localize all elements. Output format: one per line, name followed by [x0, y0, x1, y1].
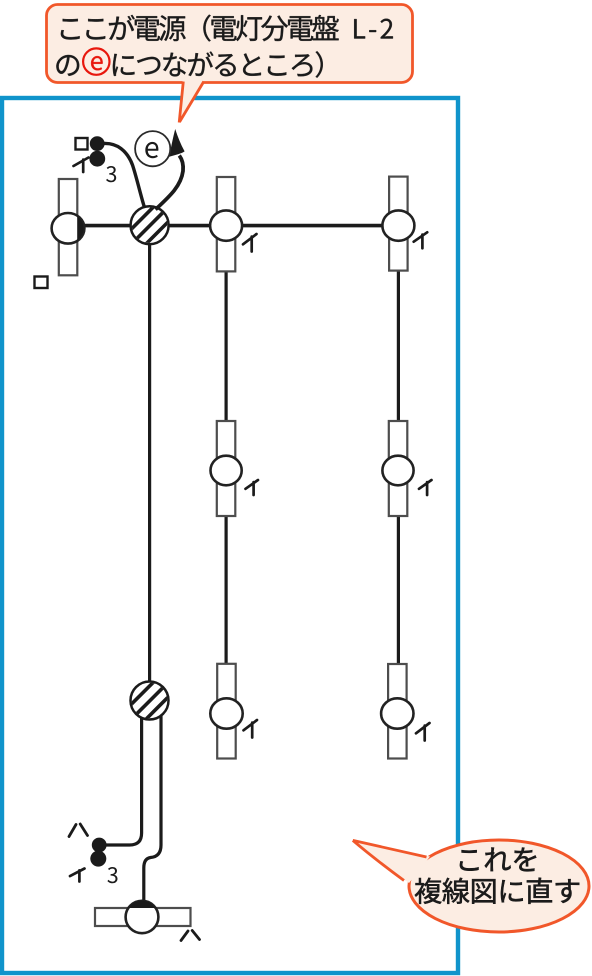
power source arrow head — [169, 129, 184, 157]
label ハ at bottom switch — [69, 824, 88, 837]
junction box B (hatched) — [123, 674, 176, 727]
lamp イ row3 right — [381, 664, 413, 759]
lamp イ row2 middle — [211, 421, 242, 516]
lamp left (vertical fluorescent, west wall) — [52, 179, 85, 275]
label イ row2 middle — [246, 480, 259, 495]
source node circle e — [135, 131, 170, 166]
wire: junction box B left drop to 3-way switch — [103, 712, 142, 845]
wire: main horizontal run at top — [80, 224, 399, 228]
lamp ハ bottom (horizontal fluorescent) — [95, 901, 191, 933]
label イ at bottom switch — [70, 869, 85, 882]
label イ row1 right — [414, 232, 428, 248]
wire: right column vertical run — [397, 240, 400, 664]
label イ row1 middle — [243, 234, 257, 252]
label イ row3 middle — [244, 720, 258, 738]
wire: vertical run junction box A to junction box B — [148, 240, 151, 685]
lamp イ row1 middle — [210, 177, 242, 271]
wire: middle column vertical run — [225, 240, 228, 664]
callout top text line2 rest: につながるところ） — [113, 51, 323, 77]
lamp left connection wedge — [77, 216, 83, 240]
wire: switch イ to junction box A — [104, 143, 144, 206]
label イ at top switch — [74, 158, 89, 173]
label イ row2 right — [419, 480, 432, 495]
callout bottom text: これを — [460, 848, 536, 872]
callout bottom text: 複線図に直す — [415, 878, 579, 904]
callout top text line2: の — [56, 55, 79, 76]
callout bubble bottom-right: body ellipse — [409, 840, 589, 932]
3-way switch ハ/イ bottom: contact dots — [92, 838, 107, 853]
callout bubble bottom-right: tail — [353, 840, 430, 883]
power source arrow shaft — [156, 156, 184, 210]
callout bubble top: tail — [179, 80, 204, 122]
label 3 at bottom switch — [107, 867, 117, 883]
callout top circled e (red) — [83, 48, 109, 74]
lamp イ row2 right — [382, 421, 413, 516]
3-way switch イ: contact dots — [90, 136, 105, 151]
junction box A (hatched) — [123, 199, 176, 252]
lamp イ row3 middle — [210, 664, 242, 759]
label 3 at top switch — [106, 166, 116, 182]
3-way switch イ: wall plate square — [76, 138, 88, 150]
callout bubble top: body — [47, 5, 413, 83]
wire: junction box B right drop to lamp ハ — [144, 712, 161, 903]
callout top text line1: ここが電源（電灯分電盤 — [61, 15, 339, 42]
lamp イ row1 right — [382, 177, 414, 271]
callout top text line1b: L-2 — [354, 19, 393, 39]
lamp ハ connection wedge — [128, 901, 155, 908]
switch square below lamp left — [35, 277, 48, 289]
label ハ at bottom lamp — [181, 931, 200, 941]
label イ row3 right — [416, 723, 430, 741]
blue frame box — [2, 98, 458, 973]
